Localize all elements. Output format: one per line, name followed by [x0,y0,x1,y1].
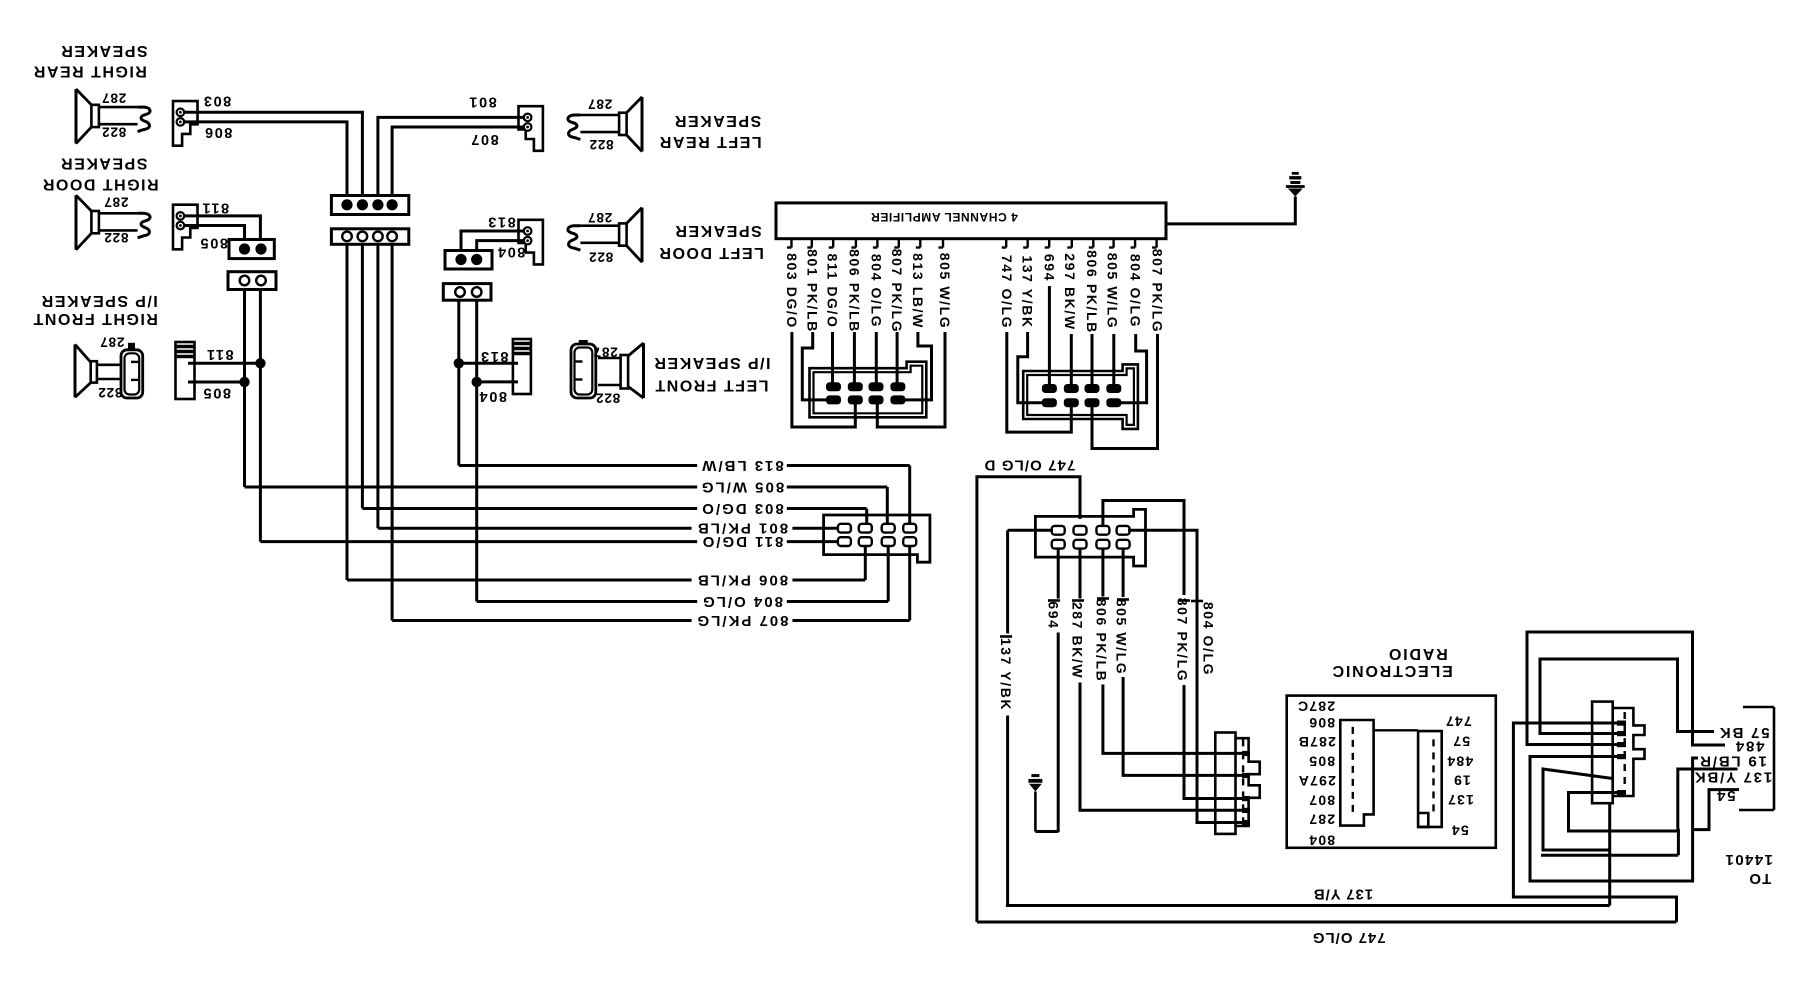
svg-text:287: 287 [1308,811,1335,827]
svg-text:SPEAKER: SPEAKER [674,222,762,239]
svg-text:484: 484 [1446,754,1473,770]
wire 813 door [461,231,524,251]
ground symbol top right [1292,172,1299,175]
svg-text:694: 694 [1046,601,1062,629]
wire 804 to amp connector right [1118,334,1147,403]
wire 804 door [477,241,524,251]
connector right door speaker [173,205,198,250]
svg-text:805 W/LG: 805 W/LG [1114,599,1130,676]
wire 811 to amp connector [831,332,834,383]
connector left door speaker [519,220,543,265]
wire 803 DG/O [362,507,866,510]
connector 2-pin socket right [228,272,276,290]
wire 807 PK/LG [392,619,910,622]
svg-text:813 LB/W: 813 LB/W [910,253,926,329]
junction 804 [472,377,482,387]
svg-text:807 PK/LG: 807 PK/LG [1150,249,1166,333]
svg-text:RIGHT FRONT: RIGHT FRONT [32,310,158,327]
wire 807 to amp connector [896,332,899,383]
wire 747 O/LG D bracket [977,477,1080,922]
wire 805 to connector C1 [886,487,889,524]
wire 813 to connector C1 [908,466,911,525]
wire 804 to amp connector [875,332,878,383]
svg-text:822: 822 [588,250,613,265]
connector C3 radio harness [1035,509,1145,566]
ground symbol radio [1031,774,1039,777]
connector 4-pin plug center [331,196,408,215]
svg-text:804: 804 [478,388,507,404]
svg-text:804 O/LG: 804 O/LG [1128,254,1144,328]
wire 804 front [477,380,518,383]
svg-text:811 DG/O: 811 DG/O [825,253,841,328]
svg-text:747: 747 [1445,713,1472,729]
wire 287 BK/W from C3 [1080,549,1247,811]
speaker left front I/P [642,343,645,398]
svg-text:803 DG/O: 803 DG/O [700,500,784,517]
svg-text:137 Y/B: 137 Y/B [1313,886,1373,903]
wire 803 to amp connector [792,332,855,427]
wire 811 DG/O [260,540,838,543]
wire 806 from connector C1 [864,545,867,580]
svg-text:811: 811 [205,346,233,362]
svg-text:822: 822 [589,137,614,152]
wire 807 trunk [391,244,394,620]
svg-text:822: 822 [98,385,123,400]
ground wire from amplifier [1166,197,1295,224]
svg-text:747 O/LG: 747 O/LG [1312,929,1386,946]
wire 813 LB/W [459,464,910,467]
svg-text:803 DG/O: 803 DG/O [784,253,800,329]
svg-text:806: 806 [1308,715,1335,731]
svg-text:19: 19 [1453,772,1471,788]
svg-text:804: 804 [1308,832,1335,848]
connector C1 8-way [824,515,930,562]
wire 747 O/LG bottom [977,921,1677,924]
svg-text:747 O/LG: 747 O/LG [999,255,1015,329]
amplifier box [776,203,1166,239]
svg-text:807: 807 [470,131,499,147]
wire 804 O/LG [477,600,889,603]
svg-text:804 O/LG: 804 O/LG [701,593,783,610]
svg-text:806 PK/LB: 806 PK/LB [1093,599,1109,683]
wire 806 to amp connector [853,332,856,383]
wire 806 PK/LB [347,579,865,582]
wire 813 front [459,362,518,365]
svg-text:805: 805 [199,235,228,251]
wire 804 from connector C1 [887,545,890,602]
svg-text:287B: 287B [1298,734,1336,750]
svg-text:806 PK/LB: 806 PK/LB [696,572,788,589]
radio internal connector bridge [1374,729,1419,731]
wire 811 door [184,216,260,240]
wire 805 W/LG [245,486,888,489]
wire 747 loop [1513,723,1676,922]
svg-text:811: 811 [201,200,229,216]
speaker left rear [641,97,644,152]
svg-text:I/P SPEAKER: I/P SPEAKER [40,292,158,309]
svg-text:801 PK/LB: 801 PK/LB [805,249,821,333]
svg-text:SPEAKER: SPEAKER [673,112,761,129]
svg-text:484: 484 [1734,738,1764,755]
connector right front I/P speaker [176,342,195,399]
wire 137 long vertical [1608,803,1611,905]
speaker left door [641,208,644,263]
svg-text:54: 54 [1451,822,1469,838]
svg-text:137 Y/BK: 137 Y/BK [998,638,1014,711]
svg-text:813 LB/W: 813 LB/W [700,457,784,474]
svg-text:RIGHT DOOR: RIGHT DOOR [41,176,158,193]
wire 807 PK/LG from C3 [1103,501,1247,799]
bracket TO 14401 [1773,707,1776,810]
wire 805 trunk [243,290,246,488]
wire 57 BK loop [1540,659,1714,734]
wire 137 Y/BK from C3 [1008,529,1053,532]
connector amplifier left [810,362,927,418]
svg-text:804: 804 [496,243,525,259]
wire 801 trunk [376,244,379,528]
svg-text:822: 822 [595,391,620,406]
svg-text:813: 813 [480,348,509,364]
connector C4 radio [1215,733,1235,834]
svg-text:297 BK/W: 297 BK/W [1062,253,1078,330]
connector 2-pin plug left [445,251,492,270]
wire 804 O/LG from C3 [1128,530,1247,822]
svg-text:54: 54 [1715,787,1735,804]
svg-text:ELECTRONIC: ELECTRONIC [1331,662,1453,679]
wire 807 [392,127,524,196]
speaker right rear [75,89,78,144]
svg-text:287: 287 [101,90,126,105]
svg-text:813: 813 [487,213,516,229]
svg-text:287C: 287C [1297,698,1335,714]
wire 806 trunk [346,244,349,580]
svg-text:822: 822 [104,230,129,245]
wire 747 to amp connector [1007,332,1072,432]
wire 813 trunk [457,300,460,465]
speaker right front I/P [74,344,77,397]
svg-text:19 LB/R: 19 LB/R [1698,753,1766,770]
connector 2-pin socket left [443,284,491,301]
svg-text:801: 801 [468,93,497,109]
radio box [1287,696,1496,848]
svg-text:287: 287 [104,195,129,210]
svg-text:LEFT FRONT: LEFT FRONT [654,376,769,393]
wire 805 front [188,381,245,384]
svg-text:807 PK/LG: 807 PK/LG [695,612,788,629]
wire 811 trunk [259,290,262,542]
junction 811 [255,358,265,368]
svg-text:287: 287 [593,345,618,360]
wire 137 to amp connector [1018,332,1045,403]
svg-text:SPEAKER: SPEAKER [60,42,148,59]
speaker right door [75,195,78,250]
amplifier pin stubs [790,239,792,248]
svg-text:287: 287 [100,335,125,350]
svg-text:SPEAKER: SPEAKER [60,155,148,172]
svg-text:805 W/LG: 805 W/LG [700,479,784,496]
radio internal connector left [1340,720,1373,826]
svg-text:807: 807 [1308,793,1335,809]
connector amplifier right [1023,364,1138,429]
svg-text:LEFT DOOR: LEFT DOOR [658,244,764,261]
connector 4-pin socket center [331,229,408,245]
wire 806 PK/LB from C3 [1103,549,1247,754]
svg-text:807 PK/LG: 807 PK/LG [889,249,905,333]
wire 484 loop [1527,632,1725,745]
wire 54 loop [1693,790,1739,830]
svg-text:807 PK/LG: 807 PK/LG [1175,598,1191,682]
svg-text:804 O/LG: 804 O/LG [1200,602,1216,676]
wire 803 [184,112,362,195]
junction 805 [239,377,249,387]
svg-text:803: 803 [202,92,231,108]
connector left front I/P speaker [513,339,531,394]
svg-text:822: 822 [101,125,126,140]
svg-text:137 Y/BK: 137 Y/BK [1020,255,1036,328]
connector CC2 [1592,702,1613,804]
svg-text:804 O/LG: 804 O/LG [868,254,884,328]
svg-text:TO: TO [1748,870,1771,887]
wire 801 PK/LB [378,527,838,530]
svg-text:LEFT REAR: LEFT REAR [658,133,761,150]
connector right rear speaker [173,101,198,146]
wire 811 front [188,362,261,365]
svg-text:I/P SPEAKER: I/P SPEAKER [653,354,771,371]
wire 805 W/LG from C3 [1123,549,1247,776]
wire 807 from connector C1 [908,545,911,621]
wire 694 to amp connector [1048,286,1051,385]
wire 813 to amp connector [901,332,932,400]
wire 137 Y/BK right [1569,769,1738,831]
svg-text:806: 806 [203,124,232,140]
wire 804 trunk [475,300,478,601]
svg-text:14401: 14401 [1724,851,1773,868]
svg-text:694: 694 [1041,254,1057,282]
svg-text:287: 287 [587,210,612,225]
wire 803 to connector C1 [865,509,868,525]
svg-text:805: 805 [202,385,231,401]
svg-text:137 Y/BK: 137 Y/BK [1693,769,1772,786]
wire 137 right lower segment [1541,854,1678,857]
junction 813 [454,358,464,368]
wire 19 LB/R loop [1530,757,1698,882]
wire 297 to amp connector [1070,334,1073,385]
wire 805 to amp connector [877,332,945,427]
connector left rear speaker [519,106,543,151]
svg-text:747 O/LG D: 747 O/LG D [983,456,1075,473]
wire 137 loop sloped [1543,769,1613,850]
svg-text:297A: 297A [1298,773,1336,789]
wire 801 to amp connector [802,332,830,400]
wire 803 trunk [361,244,364,508]
svg-text:806 PK/LB: 806 PK/LB [846,249,862,333]
wire 805 to amp connector right [1112,334,1115,385]
wire 694 from C3 [1057,549,1060,833]
svg-text:57: 57 [1452,734,1470,750]
wire 806 to amp connector right [1091,334,1094,385]
wire 807 to amp connector right [1092,334,1158,449]
svg-text:805 W/LG: 805 W/LG [937,253,953,330]
wire 805 door [184,226,245,240]
radio internal connector right [1418,731,1442,827]
svg-text:805 W/LG: 805 W/LG [1105,253,1121,330]
svg-text:RADIO: RADIO [1387,645,1448,662]
svg-text:137: 137 [1447,792,1474,808]
wire 801 [378,117,524,195]
svg-text:4 CHANNEL AMPLIFIER: 4 CHANNEL AMPLIFIER [870,210,1017,224]
svg-text:811 DG/O: 811 DG/O [701,533,784,550]
svg-text:805: 805 [1308,754,1335,770]
svg-text:287 BK/W: 287 BK/W [1070,602,1086,679]
connector 2-pin plug right [229,240,274,259]
svg-text:RIGHT REAR: RIGHT REAR [32,63,147,80]
wire 137 Y/B bottom [1006,904,1610,907]
svg-text:806 PK/LB: 806 PK/LB [1084,250,1100,334]
wire 806 [184,122,347,196]
svg-text:287: 287 [587,96,612,111]
